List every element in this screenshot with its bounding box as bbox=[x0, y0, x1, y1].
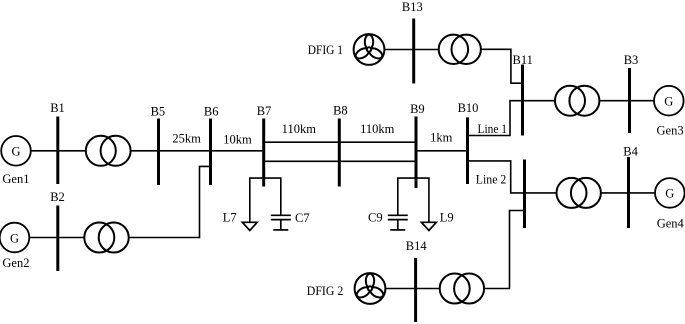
svg-text:B2: B2 bbox=[50, 190, 65, 204]
svg-text:Gen1: Gen1 bbox=[2, 172, 29, 186]
wire 110km lower line B7-B9 bbox=[264, 160, 416, 162]
svg-text:L9: L9 bbox=[440, 211, 454, 225]
wire B13 to transformer bbox=[414, 49, 439, 51]
wire T1 to B7 through B5 B6 bbox=[131, 150, 264, 152]
svg-text:B1: B1 bbox=[50, 101, 65, 115]
bus B1 bbox=[56, 117, 59, 185]
wind turbine DFIG2 bbox=[355, 273, 386, 304]
svg-text:G: G bbox=[665, 187, 674, 201]
transformer T1 bbox=[86, 136, 131, 166]
wire Gen2 to B2 bbox=[29, 237, 58, 239]
svg-text:B14: B14 bbox=[406, 239, 428, 253]
svg-text:B10: B10 bbox=[458, 101, 479, 115]
svg-text:B5: B5 bbox=[151, 105, 166, 119]
wire transformer to B11 bbox=[481, 49, 523, 83]
svg-text:L7: L7 bbox=[223, 211, 237, 225]
bus B14 bbox=[414, 258, 417, 322]
wire B14 to transformer bbox=[416, 288, 440, 290]
svg-text:G: G bbox=[664, 95, 673, 109]
svg-text:B3: B3 bbox=[624, 53, 639, 67]
svg-text:B8: B8 bbox=[333, 104, 348, 118]
wire T3 to B3 bbox=[599, 100, 629, 102]
wire turbine to B14 bbox=[385, 288, 415, 290]
wire Line 2: B10 to B12 bbox=[468, 161, 525, 193]
bus B6 bbox=[209, 119, 212, 186]
wire B4 to Gen4 bbox=[629, 192, 656, 194]
wire turbine to B13 bbox=[384, 49, 413, 51]
generator Gen1 bbox=[1, 136, 31, 166]
wire T4 to B4 bbox=[601, 192, 629, 194]
transformer T4 bbox=[557, 178, 601, 208]
capacitor C7 bbox=[271, 215, 291, 230]
wire B2 to transformer T2 bbox=[58, 237, 85, 239]
svg-text:G: G bbox=[11, 145, 20, 159]
capacitor C9 bbox=[388, 215, 408, 230]
wire transformer to B12 bbox=[484, 211, 524, 289]
bus B13 bbox=[412, 19, 415, 84]
svg-text:10km: 10km bbox=[223, 133, 252, 147]
bus B12 bbox=[523, 160, 526, 229]
bus B8 bbox=[338, 119, 341, 187]
svg-text:25km: 25km bbox=[172, 132, 201, 146]
transformer T-DFIG1 bbox=[439, 35, 481, 64]
svg-text:B11: B11 bbox=[513, 53, 533, 67]
bus B7 bbox=[262, 119, 265, 187]
bus B2 bbox=[56, 206, 59, 272]
wire T2 up to B6 bbox=[129, 166, 211, 237]
svg-text:B4: B4 bbox=[623, 145, 638, 159]
wire B1 to transformer T1 bbox=[58, 150, 86, 152]
transformer T-DFIG2 bbox=[440, 274, 484, 304]
svg-text:Gen3: Gen3 bbox=[657, 124, 684, 138]
svg-text:B13: B13 bbox=[402, 0, 423, 14]
svg-text:1km: 1km bbox=[430, 131, 453, 145]
svg-text:Line 2: Line 2 bbox=[476, 173, 507, 187]
svg-text:B9: B9 bbox=[410, 102, 425, 116]
bus B10 bbox=[466, 117, 469, 184]
svg-text:Gen4: Gen4 bbox=[657, 217, 685, 231]
transformer T2 bbox=[84, 223, 128, 253]
bus B4 bbox=[627, 157, 630, 228]
generator Gen3 bbox=[654, 86, 684, 116]
svg-text:C7: C7 bbox=[295, 211, 310, 225]
svg-text:C9: C9 bbox=[368, 211, 383, 225]
wire B3 to Gen3 bbox=[630, 100, 655, 102]
wire load bracket B9 bbox=[398, 178, 429, 222]
wire Line 1: B10 to B11 bbox=[468, 101, 523, 136]
load arrow L7 bbox=[242, 222, 257, 230]
bus B3 bbox=[628, 68, 631, 133]
bus B5 bbox=[157, 119, 160, 186]
svg-text:B7: B7 bbox=[257, 104, 272, 118]
svg-text:DFIG 1: DFIG 1 bbox=[308, 43, 343, 57]
svg-text:Line 1: Line 1 bbox=[478, 122, 508, 136]
transformer T3 bbox=[555, 86, 599, 116]
svg-text:B6: B6 bbox=[204, 105, 219, 119]
wire load bracket B7 bbox=[250, 178, 281, 222]
generator Gen2 bbox=[0, 223, 29, 253]
wind turbine DFIG1 bbox=[354, 34, 385, 65]
svg-text:110km: 110km bbox=[282, 122, 317, 136]
bus B11 bbox=[521, 65, 524, 136]
load arrow L9 bbox=[422, 222, 437, 230]
generator Gen4 bbox=[655, 178, 685, 208]
wire B12 to transformer T4 bbox=[525, 192, 557, 194]
svg-text:G: G bbox=[10, 231, 19, 245]
svg-text:Gen2: Gen2 bbox=[2, 256, 29, 270]
wire B9 to B10 bbox=[416, 150, 468, 152]
wire Gen1 to B1 bbox=[30, 150, 57, 152]
svg-text:DFIG 2: DFIG 2 bbox=[307, 284, 344, 298]
svg-text:110km: 110km bbox=[360, 122, 395, 136]
wire 110km upper line B7-B9 bbox=[264, 141, 416, 143]
bus B9 bbox=[415, 117, 418, 189]
wire B11 to transformer T3 bbox=[523, 100, 556, 102]
